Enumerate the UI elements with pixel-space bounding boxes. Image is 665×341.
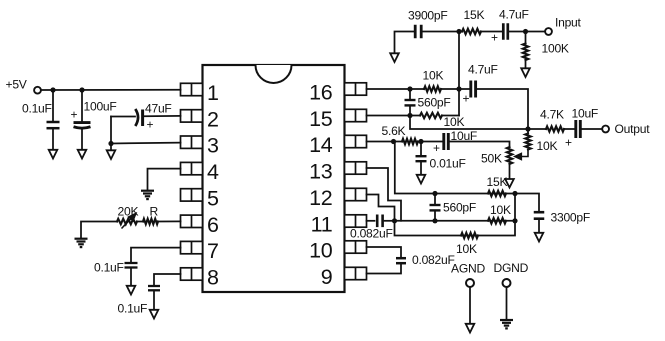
wire pin 10 to cap bbox=[367, 247, 402, 257]
resistor 10K (pin 16) bbox=[424, 86, 441, 91]
wire mid row bbox=[395, 220, 516, 222]
svg-text:R: R bbox=[150, 205, 159, 219]
IC pin-1 notch bbox=[256, 65, 292, 83]
svg-text:0.01uF: 0.01uF bbox=[430, 157, 466, 171]
wire 560pF upper stem bbox=[409, 89, 411, 99]
svg-text:3900pF: 3900pF bbox=[408, 9, 448, 23]
capacitor 0.1uF (pin 8) bbox=[148, 286, 160, 290]
wire +5V rail to pin 1 bbox=[41, 89, 181, 91]
wire 4.7uF to corner bbox=[477, 89, 528, 129]
svg-text:6: 6 bbox=[207, 213, 219, 237]
junction pin14 node bbox=[391, 139, 396, 144]
svg-text:16: 16 bbox=[309, 81, 333, 105]
svg-text:AGND: AGND bbox=[451, 262, 485, 276]
resistor R bbox=[143, 219, 158, 224]
pin 1 box bbox=[181, 83, 203, 95]
wire feedback row bbox=[395, 194, 516, 236]
wire pin 15 row bbox=[367, 115, 421, 117]
wire 0.1uF pin8 stem bbox=[153, 292, 155, 311]
terminal Input bbox=[545, 28, 552, 35]
capacitor 100uF bbox=[74, 123, 91, 129]
resistor 5.6K bbox=[402, 139, 418, 144]
wire pin15 node to output bus bbox=[410, 116, 528, 130]
wiper wire 10K to 50K pot bbox=[515, 150, 528, 160]
wire 20K to ground bbox=[81, 222, 117, 239]
svg-text:7: 7 bbox=[207, 239, 219, 263]
svg-text:9: 9 bbox=[321, 265, 333, 289]
svg-text:3300pF: 3300pF bbox=[551, 211, 591, 225]
resistor 10K (feedback) bbox=[461, 233, 478, 238]
ground arrow below 0.1uF bbox=[49, 150, 58, 159]
svg-text:10K: 10K bbox=[537, 139, 558, 153]
svg-text:560pF: 560pF bbox=[443, 201, 476, 215]
pin 7 box bbox=[181, 241, 203, 253]
svg-text:14: 14 bbox=[309, 133, 333, 157]
wire pin 6 to R bbox=[158, 220, 181, 222]
svg-text:+: + bbox=[71, 108, 78, 122]
wire 47uF to cap bbox=[111, 116, 135, 118]
potentiometer 20K element bbox=[117, 219, 137, 224]
svg-text:15K: 15K bbox=[487, 175, 508, 189]
junction 560pF lower bottom bbox=[432, 218, 437, 223]
wire 0.1uF lower stem bbox=[52, 130, 54, 151]
pin 16 box bbox=[345, 83, 367, 95]
svg-text:0.082uF: 0.082uF bbox=[350, 227, 393, 241]
earth ground DGND bbox=[500, 320, 513, 328]
junction x459 row16 bbox=[456, 86, 461, 91]
wire 100uF lower stem bbox=[81, 129, 83, 150]
wire 10K vert stem bbox=[527, 129, 529, 134]
svg-text:+: + bbox=[491, 31, 498, 45]
junction 560pF lower top bbox=[432, 191, 437, 196]
terminal +5V bbox=[34, 87, 41, 94]
capacitor 4.7uF (pin 16) bbox=[471, 81, 476, 98]
capacitor 560pF (lower) bbox=[430, 205, 441, 210]
svg-text:+: + bbox=[147, 118, 154, 132]
arrow below 50K bbox=[505, 179, 514, 188]
ground arrow below 47uF node bbox=[107, 150, 116, 159]
svg-text:20K: 20K bbox=[118, 205, 139, 219]
svg-text:15K: 15K bbox=[464, 8, 485, 22]
capacitor 560pF (upper) bbox=[405, 100, 416, 105]
svg-text:13: 13 bbox=[309, 160, 333, 184]
wire node to pin 3 bbox=[111, 142, 181, 145]
ground arrow below 3300pF bbox=[535, 233, 544, 242]
earth ground pin 6 network bbox=[75, 239, 88, 247]
wire junction to 4.7uF bbox=[459, 88, 469, 90]
resistor 10K (mid row) bbox=[488, 218, 506, 223]
svg-text:50K: 50K bbox=[481, 152, 502, 166]
wire 0.1uF pin7 stem bbox=[130, 269, 132, 286]
junction input/100K bbox=[523, 29, 528, 34]
wire cap to node bbox=[385, 220, 395, 222]
junction +5V/C-100uF bbox=[79, 87, 84, 92]
svg-text:4.7K: 4.7K bbox=[540, 108, 564, 122]
wire 3300pF stem bbox=[538, 220, 540, 233]
pin 12 box bbox=[345, 188, 367, 200]
resistor 15K (top) bbox=[462, 29, 481, 34]
svg-text:3: 3 bbox=[207, 134, 219, 158]
wire 4.7K to 10uF bbox=[564, 128, 574, 130]
wire pin 11 to cap bbox=[367, 220, 375, 222]
junction 15K/vertical feed bbox=[456, 29, 461, 34]
wire 47uF branch vertical bbox=[110, 117, 112, 144]
svg-text:+: + bbox=[463, 92, 470, 106]
ground arrow below pin 7 cap bbox=[127, 286, 136, 295]
resistor 100K bbox=[523, 44, 528, 61]
ground arrow below 100K bbox=[521, 68, 530, 77]
wire 15K to 4.7uF bbox=[481, 31, 502, 33]
wire pin 14 row bbox=[367, 141, 403, 143]
wire pin 12 staircase bbox=[367, 195, 395, 221]
svg-text:0.1uF: 0.1uF bbox=[22, 102, 52, 116]
wire 560pF lower bottom stem bbox=[434, 212, 436, 221]
wire pin14 node down feed bbox=[395, 142, 539, 212]
wire cap to pin 9 bbox=[367, 265, 402, 274]
capacitor 10uF (output) bbox=[576, 120, 581, 138]
svg-text:10K: 10K bbox=[423, 69, 444, 83]
resistor 10K (pin 15) bbox=[420, 113, 442, 118]
wire 3900pF left drop bbox=[395, 32, 414, 54]
wire 10uF to output terminal bbox=[582, 128, 602, 130]
wire 5.6K to 10uF bbox=[418, 141, 442, 143]
wire pin 8 left bbox=[154, 274, 181, 285]
capacitor 47uF flat plate bbox=[141, 110, 144, 127]
wire node down bbox=[110, 144, 112, 151]
junction 15K/x515 bbox=[512, 191, 517, 196]
capacitor 0.082uF (pins 10-9) bbox=[396, 258, 406, 263]
svg-text:0.082uF: 0.082uF bbox=[412, 253, 455, 267]
terminal AGND bbox=[466, 279, 474, 287]
svg-text:4: 4 bbox=[207, 160, 219, 184]
capacitor 3900pF bbox=[415, 25, 421, 39]
wire 10uF to 50K pot bbox=[450, 142, 510, 148]
svg-text:0.1uF: 0.1uF bbox=[118, 302, 148, 316]
svg-text:5.6K: 5.6K bbox=[382, 124, 406, 138]
earth ground pin 4 bbox=[141, 191, 154, 199]
pin 11 box bbox=[345, 215, 367, 227]
svg-text:10uF: 10uF bbox=[572, 107, 599, 121]
ground arrow below 100uF bbox=[78, 150, 87, 159]
pin 9 box bbox=[345, 267, 367, 279]
wire pin 16 row bbox=[367, 88, 425, 90]
svg-text:DGND: DGND bbox=[494, 261, 529, 275]
wire output node to 4.7K bbox=[528, 128, 546, 130]
svg-text:0.1uF: 0.1uF bbox=[94, 261, 124, 275]
svg-text:4.7uF: 4.7uF bbox=[499, 8, 529, 22]
capacitor 3300pF bbox=[534, 212, 545, 219]
wire 47uF cap to pin 2 bbox=[144, 115, 180, 117]
wire 0.01uF lower stem bbox=[420, 163, 422, 176]
svg-text:10K: 10K bbox=[490, 203, 511, 217]
pin 15 box bbox=[345, 109, 367, 121]
wire 50K bottom bbox=[509, 164, 511, 179]
junction output node bbox=[525, 126, 530, 131]
ground arrow below 0.01uF bbox=[417, 175, 426, 184]
svg-text:+: + bbox=[565, 136, 572, 150]
wire pin 13 staircase bbox=[367, 168, 402, 221]
svg-text:10: 10 bbox=[309, 239, 333, 263]
wire AGND down bbox=[469, 287, 471, 324]
wire 100K stem bottom bbox=[525, 60, 527, 69]
wire 0.1uF upper stem bbox=[52, 90, 54, 121]
svg-text:100K: 100K bbox=[542, 42, 569, 56]
pin 6 box bbox=[181, 215, 203, 227]
svg-text:Output: Output bbox=[615, 122, 651, 136]
pin 5 box bbox=[181, 189, 203, 201]
junction pin16/560pF bbox=[407, 86, 412, 91]
pin 13 box bbox=[345, 162, 367, 174]
wire 100uF upper stem bbox=[81, 90, 83, 122]
svg-text:10K: 10K bbox=[456, 242, 477, 256]
wire 4.7uF to input terminal bbox=[509, 31, 545, 33]
junction pin15 node bbox=[407, 113, 412, 118]
svg-text:2: 2 bbox=[207, 107, 219, 131]
wire 560pF lower stem bbox=[409, 107, 411, 116]
pin 4 box bbox=[181, 162, 203, 174]
pin 10 box bbox=[345, 241, 367, 253]
svg-text:4.7uF: 4.7uF bbox=[468, 63, 498, 77]
capacitor 10uF (pin 14) bbox=[444, 133, 449, 150]
wire R to 20K bbox=[137, 221, 143, 223]
potentiometer 50K element bbox=[507, 147, 512, 164]
resistor 15K (lower) bbox=[488, 191, 506, 196]
resistor 10K (output) bbox=[525, 134, 530, 150]
ground arrow below AGND bbox=[466, 324, 475, 333]
wire DGND down bbox=[506, 287, 508, 319]
svg-text:1: 1 bbox=[207, 81, 219, 105]
wire 560pF lower upper stem bbox=[434, 194, 436, 204]
junction pins 11/12 node bbox=[392, 218, 397, 223]
svg-text:12: 12 bbox=[309, 186, 332, 210]
capacitor 4.7uF (input) bbox=[503, 23, 508, 40]
pin 3 box bbox=[181, 136, 203, 148]
svg-text:5: 5 bbox=[207, 186, 219, 210]
svg-text:47uF: 47uF bbox=[145, 102, 172, 116]
svg-text:Input: Input bbox=[555, 16, 582, 30]
svg-text:8: 8 bbox=[207, 266, 219, 290]
terminal Output bbox=[602, 126, 609, 133]
wire 3900pF to 15K bbox=[423, 31, 462, 33]
capacitor 0.1uF (supply) bbox=[47, 122, 60, 128]
svg-text:560pF: 560pF bbox=[418, 96, 451, 110]
wire vertical feed x459 bbox=[458, 32, 460, 116]
wire pin 4 left bbox=[148, 169, 181, 190]
capacitor 47uF curved plate bbox=[135, 109, 138, 126]
capacitor 0.082uF (pin 11) bbox=[377, 215, 382, 228]
junction 0.01uF tap bbox=[418, 139, 423, 144]
svg-text:11: 11 bbox=[311, 213, 333, 237]
terminal DGND bbox=[503, 279, 511, 287]
svg-text:15: 15 bbox=[309, 107, 333, 131]
ground arrow below 3900pF left bbox=[390, 53, 399, 62]
op-amp/filter IC U1 body bbox=[203, 65, 345, 292]
pin 2 box bbox=[181, 110, 203, 122]
wire 10K row15 to x459 bbox=[442, 115, 459, 117]
resistor 4.7K bbox=[546, 126, 564, 131]
wire 0.01uF stem bbox=[420, 142, 422, 156]
svg-text:+: + bbox=[433, 141, 440, 155]
capacitor 0.01uF bbox=[416, 156, 427, 161]
ground arrow below pin 8 cap bbox=[150, 310, 159, 319]
wire pin 7 left bbox=[131, 248, 181, 262]
junction +5V/C-0.1uF bbox=[50, 87, 55, 92]
potentiometer 20K wiper arrow bbox=[122, 214, 136, 229]
wire 100K stem top bbox=[525, 32, 527, 44]
svg-text:+5V: +5V bbox=[6, 78, 28, 92]
junction mid/x515 bbox=[512, 218, 517, 223]
svg-text:100uF: 100uF bbox=[84, 100, 117, 114]
pin 14 box bbox=[345, 135, 367, 147]
svg-text:10K: 10K bbox=[444, 115, 465, 129]
junction 47uF/pin3 node bbox=[108, 141, 113, 146]
capacitor 0.1uF (pin 7) bbox=[125, 263, 138, 268]
wire 10K to junction bbox=[441, 88, 459, 90]
pin 8 box bbox=[181, 268, 203, 280]
